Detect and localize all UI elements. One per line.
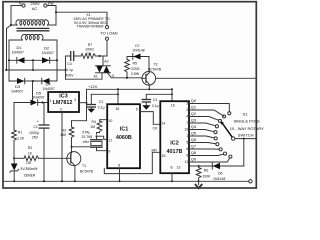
triac: [102, 56, 104, 66]
svg-text:0.5W: 0.5W: [131, 72, 140, 76]
IC2 4017B: [160, 101, 189, 173]
svg-text:2: 2: [186, 108, 188, 112]
ground rail: [4, 180, 249, 182]
svg-text:1M: 1M: [90, 125, 95, 129]
svg-text:1000µ: 1000µ: [29, 131, 39, 135]
wire load line: [56, 12, 107, 25]
svg-text:9: 9: [108, 150, 110, 154]
svg-text:100K: 100K: [202, 174, 211, 178]
wire IC1 pin16: [117, 89, 119, 104]
svg-text:IC1: IC1: [120, 127, 128, 133]
switch contact circles: [228, 112, 231, 115]
capacitor C4: [66, 56, 71, 70]
svg-text:kHz: kHz: [83, 140, 89, 144]
capacitor C2: [91, 93, 118, 95]
node N terminal: [11, 5, 22, 7]
svg-text:IC2: IC2: [170, 141, 178, 147]
svg-text:BC547B: BC547B: [148, 68, 162, 72]
svg-text:C4: C4: [67, 62, 72, 66]
wire T1 collector to crystal: [72, 146, 91, 148]
svg-text:25V: 25V: [32, 135, 39, 139]
svg-text:R7: R7: [88, 43, 93, 47]
resistor R2: [14, 157, 24, 159]
wire PH to transformer: [47, 6, 56, 26]
node PH terminal: [44, 4, 47, 7]
svg-text:D8: D8: [26, 161, 31, 165]
wire IC1 pin5 to IC2 CK: [140, 112, 160, 125]
svg-text:11: 11: [185, 160, 189, 164]
resistor R7: [81, 54, 96, 59]
rotary switch S1 contacts and wires: [184, 102, 188, 165]
resistor R4: [97, 120, 108, 135]
wire bridge top row: [9, 59, 57, 61]
wire N down to primary: [11, 6, 17, 26]
wire Q4: [189, 130, 214, 132]
svg-text:4060B: 4060B: [116, 135, 132, 141]
wire pole row: [235, 138, 256, 140]
capacitor C3: [146, 94, 172, 99]
IC1 4060B: [107, 104, 140, 168]
svg-text:Q7: Q7: [191, 144, 197, 149]
svg-text:16: 16: [115, 107, 119, 111]
svg-text:R4: R4: [92, 120, 97, 124]
wire Q2: [189, 117, 219, 121]
svg-text:C3: C3: [153, 98, 158, 102]
svg-text:1: 1: [50, 99, 52, 103]
resistor R1: [13, 103, 15, 131]
svg-text:T2: T2: [153, 62, 157, 66]
zener D8: [13, 158, 15, 163]
wire Q9: [189, 158, 230, 162]
svg-text:1N4007: 1N4007: [43, 87, 55, 91]
svg-text:8: 8: [118, 164, 120, 168]
svg-text:D5: D5: [36, 90, 42, 95]
wire IC2 pin8 to rail: [171, 173, 173, 181]
svg-text:C1: C1: [33, 125, 38, 129]
svg-text:MR: MR: [152, 149, 158, 153]
svg-text:R6: R6: [204, 168, 209, 172]
node rail terminal: [249, 180, 252, 183]
svg-text:10: 10: [184, 128, 188, 132]
switch pole and wiper: [232, 137, 235, 140]
svg-text:Q1: Q1: [191, 105, 197, 110]
svg-text:D7: D7: [135, 44, 140, 48]
wire load to R7 row: [106, 40, 108, 56]
wire top-mid link: [32, 60, 34, 70]
diode D4: [41, 78, 43, 84]
svg-text:Q9: Q9: [191, 157, 197, 162]
svg-text:220Ω: 220Ω: [131, 67, 140, 71]
wire bridge mid row: [7, 69, 66, 71]
resistor R5: [125, 60, 130, 74]
wire IC3 output: [79, 102, 87, 104]
svg-text:32.768: 32.768: [82, 135, 93, 139]
svg-text:+12V: +12V: [88, 84, 98, 89]
svg-text:2W: 2W: [86, 52, 92, 56]
wire IC3 out to rail: [86, 89, 88, 102]
wire rail branch down: [72, 103, 87, 121]
svg-text:Q8: Q8: [191, 150, 197, 155]
svg-text:4: 4: [186, 115, 188, 119]
svg-text:LM7812: LM7812: [53, 100, 73, 106]
wire IC1 pin8 to rail: [119, 168, 121, 181]
svg-text:3: 3: [74, 98, 76, 102]
border frame: [3, 2, 256, 188]
wire IC3 pin2 to ground rail: [61, 112, 63, 181]
wire Q7: [189, 148, 219, 150]
svg-text:10 - WAY ROTARY: 10 - WAY ROTARY: [230, 126, 264, 131]
svg-text:G: G: [112, 74, 115, 78]
svg-text:Q5: Q5: [191, 131, 197, 136]
svg-text:SINGLE POLE: SINGLE POLE: [234, 119, 261, 124]
svg-text:11: 11: [108, 138, 112, 142]
wire pole drop: [243, 139, 245, 166]
svg-text:R1: R1: [18, 130, 23, 134]
svg-text:15: 15: [162, 154, 166, 158]
svg-text:5V,350mW: 5V,350mW: [21, 167, 39, 171]
svg-text:TO LOAD: TO LOAD: [100, 30, 118, 35]
transistor T1: [67, 152, 81, 166]
svg-text:1N4007: 1N4007: [42, 51, 54, 55]
svg-text:10: 10: [108, 119, 112, 123]
wire Q0: [189, 104, 229, 112]
svg-text:D1: D1: [17, 45, 23, 50]
transformer core: [17, 27, 50, 29]
svg-text:CK: CK: [153, 127, 159, 131]
capacitor C1: [43, 103, 45, 125]
svg-text:D6: D6: [218, 171, 223, 175]
svg-text:D2: D2: [44, 46, 50, 51]
diode D3: [17, 78, 24, 84]
wire IC2 pin16: [171, 89, 173, 101]
svg-text:2.2K: 2.2K: [17, 137, 25, 141]
svg-text:TRANSFORMER: TRANSFORMER: [76, 25, 104, 29]
svg-text:5: 5: [186, 141, 188, 145]
svg-text:A2: A2: [104, 60, 108, 64]
svg-text:7: 7: [186, 121, 188, 125]
svg-text:N: N: [19, 0, 22, 5]
svg-text:Q3: Q3: [191, 118, 197, 123]
wire secondary left: [9, 40, 23, 81]
wire Q3: [189, 123, 216, 126]
diode D2: [42, 57, 49, 63]
svg-text:14: 14: [161, 121, 165, 125]
resistor R6: [196, 166, 201, 182]
diode D7: [127, 57, 149, 60]
crystal XTAL 32.768kHz: [96, 136, 98, 139]
svg-text:1N4007: 1N4007: [32, 96, 44, 100]
svg-text:1N4148: 1N4148: [213, 177, 225, 181]
transformer secondary: [21, 34, 43, 40]
svg-text:BC547B: BC547B: [80, 170, 94, 174]
svg-text:IC3: IC3: [59, 94, 67, 100]
svg-text:1N4007: 1N4007: [11, 90, 23, 94]
wire Q6: [189, 143, 216, 144]
svg-text:1K: 1K: [28, 152, 33, 156]
svg-text:0.1µ: 0.1µ: [152, 104, 159, 108]
svg-text:2: 2: [60, 107, 62, 111]
svg-text:400V: 400V: [65, 73, 74, 77]
svg-text:4017B: 4017B: [167, 149, 183, 155]
wire N jog down to bridge: [7, 25, 12, 70]
wire Q5: [189, 136, 214, 138]
svg-text:9: 9: [186, 154, 188, 158]
wire secondary right: [42, 40, 57, 81]
svg-text:10K: 10K: [60, 133, 67, 137]
svg-text:1: 1: [186, 134, 188, 138]
wire bridge bottom row: [9, 80, 57, 82]
svg-text:D4: D4: [46, 82, 52, 87]
wire Q1: [189, 110, 224, 116]
svg-text:100Ω: 100Ω: [85, 48, 94, 52]
svg-text:Q4: Q4: [191, 124, 197, 129]
wire triac gate: [108, 73, 142, 78]
diode D1: [16, 57, 18, 63]
transformer X1 primary: [16, 20, 49, 26]
wire T2 base to switch: [156, 77, 257, 79]
wire pin13 row: [189, 165, 244, 167]
wire Q8: [189, 154, 224, 155]
node TO LOAD terminals: [105, 26, 108, 29]
svg-text:ZENER: ZENER: [24, 173, 36, 177]
diode D6: [211, 163, 213, 169]
ground arrow: [198, 181, 200, 184]
svg-text:R5: R5: [133, 62, 138, 66]
svg-text:0.1µ: 0.1µ: [66, 68, 73, 72]
svg-text:C2: C2: [99, 100, 104, 104]
svg-text:S1: S1: [243, 112, 249, 117]
regulator IC3 LM7812: [48, 92, 79, 112]
svg-text:8: 8: [171, 165, 173, 169]
svg-text:Q2: Q2: [191, 111, 197, 116]
svg-text:Q0: Q0: [191, 98, 197, 103]
svg-text:XTAL: XTAL: [82, 130, 91, 134]
node +12V rail: [87, 88, 173, 90]
svg-text:Q6: Q6: [191, 137, 197, 142]
svg-text:6: 6: [186, 147, 188, 151]
wire bottom row to D5 node: [32, 81, 34, 103]
svg-text:13: 13: [177, 165, 181, 169]
svg-text:0.1µ: 0.1µ: [98, 106, 105, 110]
svg-text:AC: AC: [32, 6, 38, 11]
svg-text:3: 3: [186, 102, 188, 106]
svg-text:T1: T1: [82, 164, 86, 168]
svg-text:SWITCH: SWITCH: [238, 133, 254, 138]
wire triac A1: [66, 73, 103, 79]
svg-text:5: 5: [136, 108, 138, 112]
wire R4 to pin11: [97, 136, 108, 139]
svg-text:D3: D3: [15, 84, 21, 89]
diode D5: [31, 100, 38, 106]
transistor T2: [148, 57, 150, 72]
wire MR line: [104, 152, 160, 173]
svg-text:R2: R2: [28, 146, 33, 150]
resistor R3: [69, 121, 74, 140]
svg-text:1N4007: 1N4007: [12, 51, 24, 55]
svg-text:16: 16: [171, 103, 175, 107]
svg-text:A1: A1: [94, 75, 98, 79]
svg-text:1N4148: 1N4148: [132, 49, 144, 53]
wire R1 branch: [14, 102, 31, 104]
